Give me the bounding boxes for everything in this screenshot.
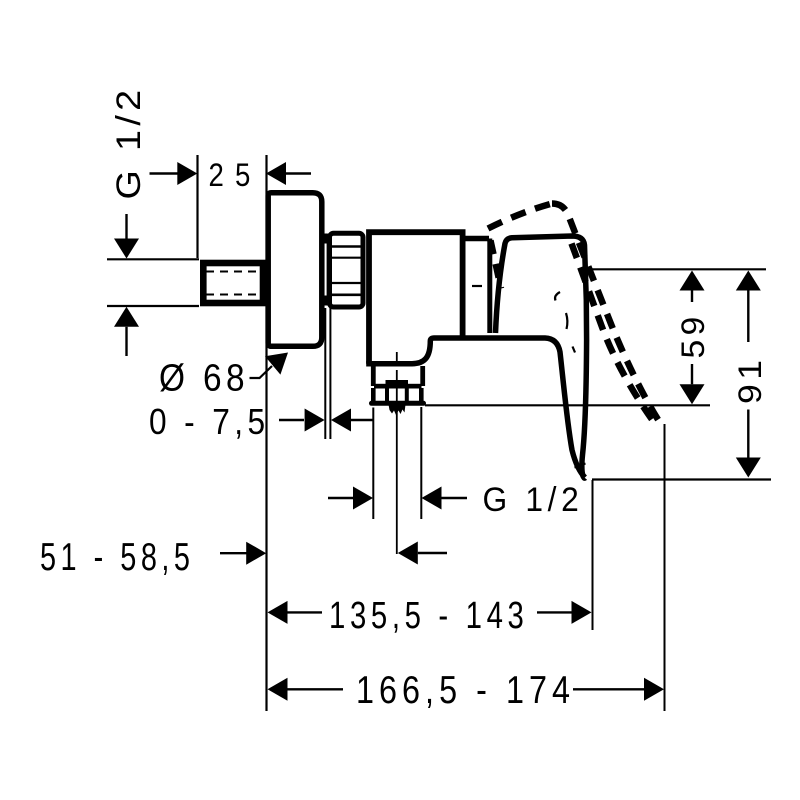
node outlet hat band <box>374 384 422 389</box>
wire: nipple bottom reference line <box>107 305 199 307</box>
svg-text:2 5: 2 5 <box>209 157 253 193</box>
component: outlet collar left side <box>371 366 376 386</box>
wire: 59 dim stem top <box>691 291 693 303</box>
wire: G 1/2 leader tail <box>150 172 181 174</box>
component: outlet collar right side <box>420 366 425 386</box>
wire: handle tip tick <box>575 464 586 468</box>
node arrow down tip at y258.5 <box>114 239 139 259</box>
node arrow left tip 135 dim <box>268 601 288 624</box>
wire: nipple dim stem bottom <box>125 327 127 356</box>
wire: cartridge sleeve top edge <box>463 236 489 242</box>
node arrow left tip 166 dim <box>268 678 288 701</box>
wire: G 1/2 outlet dim left tail <box>328 497 353 499</box>
node arrow right tip at wall line <box>246 542 266 565</box>
wire: 59 dim stem bottom <box>691 364 693 384</box>
wire: nut groove 3 <box>332 282 361 284</box>
wire: G 1/2 outlet dim right tail <box>442 497 468 499</box>
node arrow left tip at x421.5 <box>422 487 442 510</box>
wire: outlet center line <box>396 352 398 554</box>
wire: 91 dim stem top <box>747 291 749 343</box>
wire: 0-7,5 extension line left <box>324 308 326 439</box>
node arrow right tip at x324.6 <box>305 409 325 432</box>
node arrow left tip at center line <box>398 542 418 565</box>
wire: 51-58,5 tail <box>220 552 248 554</box>
wire: dashed handle inner edge <box>572 244 653 420</box>
svg-text:91: 91 <box>732 356 768 405</box>
wire: top reference line y269 <box>590 268 766 270</box>
wire: bottom reference line y479.5 <box>592 478 771 480</box>
component: threaded wall nipple <box>203 263 263 303</box>
svg-text:51 - 58,5: 51 - 58,5 <box>40 536 195 579</box>
wire: dashed handle pivot edge <box>491 241 502 289</box>
wire: left extension line of 25 dim <box>196 155 198 258</box>
wire: center dim right tail <box>418 552 447 554</box>
node arrow down tip 91 dim <box>736 458 761 478</box>
node arrow left tip at x268 (25 dim right) <box>266 162 286 185</box>
wire: outlet hex divider right <box>405 388 409 402</box>
component: outlet hex left face <box>371 388 376 402</box>
wire: 166 dim right tail <box>573 688 644 690</box>
wire: outlet hex divider left <box>385 388 389 402</box>
wire: nipple thread dashes bottom <box>206 294 261 296</box>
wire: nipple top reference line <box>107 258 199 260</box>
component: cartridge sleeve front edge <box>487 239 492 334</box>
svg-text:0 - 7,5: 0 - 7,5 <box>149 401 270 442</box>
node outlet hat band raised center <box>386 380 409 388</box>
svg-text:G 1/2: G 1/2 <box>483 481 584 519</box>
wire: 91 dim stem bottom <box>747 410 749 458</box>
wire: body bottom edge, corner and handle underside + lever inner edge <box>366 338 585 478</box>
node arrow right tip at x197 (25 dim left) <box>177 162 197 185</box>
wire: handle surface arc 1 <box>555 292 560 301</box>
node arrow right tip 135 dim <box>572 601 592 624</box>
wire: nut groove 2 <box>332 257 361 259</box>
wire: dashed handle corner and outer edge <box>552 204 662 426</box>
node arrow diagonal tip at escutcheon edge <box>265 353 288 375</box>
component: lever handle alternate position (dashed) top edge <box>488 204 552 229</box>
node ring nub bottom <box>322 296 328 306</box>
wire: 135 dim left tail <box>288 611 323 613</box>
wire: 166 dim left tail <box>288 688 344 690</box>
wire: nipple dim stem top <box>125 214 127 240</box>
svg-text:59: 59 <box>675 313 711 359</box>
component: thread ring between escutcheon and nut <box>323 235 328 305</box>
wire: nipple thread dashes top <box>206 271 261 273</box>
wire: middle reference line y405 <box>425 404 710 406</box>
wire: nut groove 1 <box>332 245 361 248</box>
svg-text:Ø 68: Ø 68 <box>159 358 249 400</box>
wire: 0-7,5 left tail <box>279 419 304 421</box>
svg-text:G 1/2: G 1/2 <box>110 86 148 200</box>
wire: outlet hex bottom edge <box>372 401 424 406</box>
node arrow down tip 59 dim <box>680 384 705 404</box>
wire: 25 dim right tail <box>286 172 311 174</box>
wire: outlet extension line right <box>420 407 422 519</box>
wire: extension line handle tip x592.5 <box>592 480 594 630</box>
wire: handle surface arc 2 <box>566 313 567 329</box>
node arrow left tip at x331 <box>331 409 351 432</box>
wire: 0-7,5 extension line right <box>329 308 331 439</box>
component: valve body <box>369 232 463 364</box>
wire: diameter 68 leader <box>250 366 273 378</box>
node arrow right tip at x373 <box>353 487 373 510</box>
wire: 135 dim right tail <box>537 611 572 613</box>
wire: extension line dashed-handle tip x664.5 <box>664 424 666 711</box>
component: outlet hex right face <box>419 388 424 402</box>
component: escutcheon (wall rosette, diameter 68) <box>268 193 322 347</box>
node arrow right tip 166 dim <box>644 678 664 701</box>
wire: sleeve mid tick <box>472 285 482 287</box>
node outlet serrated thread tip <box>389 405 406 416</box>
svg-text:166,5 - 174: 166,5 - 174 <box>356 669 575 712</box>
node arrow up tip at y306.8 <box>114 307 139 327</box>
component: knurled union nut <box>330 233 364 307</box>
wire: wall reference extension line <box>265 155 267 711</box>
node ring nub top <box>322 234 328 244</box>
wire: 0-7,5 right tail <box>351 419 374 421</box>
wire: outlet extension line left <box>372 408 374 520</box>
wire: nut groove 4 <box>332 293 361 296</box>
node arrow up tip 59 dim <box>680 271 705 291</box>
svg-text:135,5 - 143: 135,5 - 143 <box>329 595 529 637</box>
component: lever handle (solid, closed position) <box>496 236 587 478</box>
node arrow up tip 91 dim <box>736 271 761 291</box>
wire: handle surface tick <box>573 347 576 353</box>
